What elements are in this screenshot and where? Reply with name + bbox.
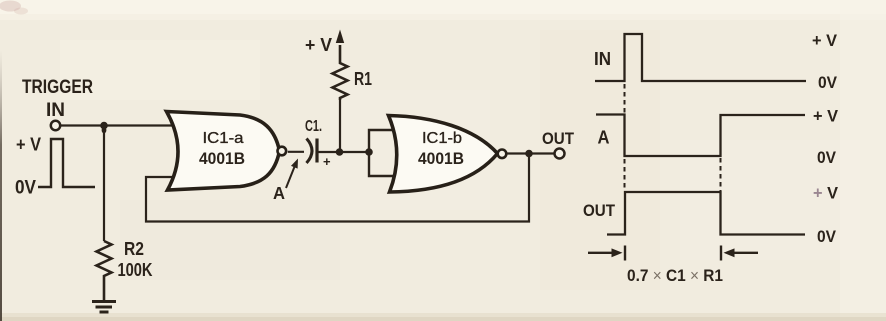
terminal: trigger input — [51, 121, 60, 130]
terminal: OUT — [555, 149, 565, 159]
svg-text:0V: 0V — [817, 227, 837, 246]
junction dot C1/R1 node — [336, 148, 344, 156]
inversion bubble IC1-a — [278, 147, 287, 156]
resistor R1 with supply arrow — [339, 100, 341, 152]
svg-text:R1: R1 — [354, 69, 372, 89]
node A arrow — [286, 163, 296, 188]
top light strip — [0, 0, 886, 14]
wire: bubble to OUT terminal — [507, 152, 554, 154]
wire: node down to R2 — [103, 126, 105, 242]
svg-text:+ V: + V — [16, 135, 41, 155]
svg-text:100K: 100K — [118, 260, 153, 280]
bottom shadow band — [0, 313, 886, 321]
junction dot at IC1-b input bracket — [365, 148, 373, 156]
svg-text:0V: 0V — [817, 148, 837, 167]
svg-text:OUT: OUT — [583, 201, 616, 220]
ground — [92, 302, 116, 313]
waveform A trace — [596, 115, 805, 157]
wire: bubble to C1 — [288, 151, 304, 153]
svg-text:+ V: + V — [305, 35, 332, 55]
junction dot OUT node — [525, 150, 533, 158]
svg-text:IC1-b: IC1-b — [422, 130, 462, 147]
svg-text:0.7 × C1 × R1: 0.7 × C1 × R1 — [627, 266, 723, 285]
arrow left (duration) — [588, 252, 613, 254]
svg-text:A: A — [598, 128, 610, 148]
input pulse waveform symbol — [38, 139, 95, 187]
mottle patches — [60, 40, 260, 100]
NOR gate IC1-b — [389, 116, 498, 193]
wire: input bracket IC1-b — [369, 130, 397, 176]
pink smudge top-left — [0, 1, 21, 12]
node junction dot at trigger line — [100, 122, 108, 130]
svg-text:+: + — [323, 154, 331, 169]
wire: feedback from OUT node to IC1-a lower input — [146, 154, 529, 222]
svg-text:0V: 0V — [15, 178, 36, 199]
dashed line t2 — [720, 158, 722, 191]
svg-text:R2: R2 — [124, 239, 144, 259]
resistor R2 — [97, 241, 112, 301]
svg-text:A: A — [273, 183, 285, 203]
wire: C1 to node — [319, 151, 370, 153]
svg-text:+ V: + V — [812, 31, 838, 50]
svg-text:0V: 0V — [818, 73, 838, 92]
waveform IN trace — [595, 34, 806, 81]
dashed line t1 upper — [624, 84, 626, 113]
svg-text:4001B: 4001B — [199, 149, 245, 168]
svg-text:IN: IN — [46, 100, 65, 121]
dashed line t1 lower — [624, 159, 626, 190]
svg-text:IN: IN — [594, 49, 611, 69]
svg-text:TRIGGER: TRIGGER — [22, 77, 93, 98]
svg-text:4001B: 4001B — [418, 149, 464, 168]
arrow right (duration) — [733, 252, 758, 254]
capacitor C1 — [307, 139, 313, 164]
svg-text:+ V: + V — [813, 107, 839, 126]
left edge dark line — [0, 50, 2, 321]
NOR gate IC1-a — [167, 112, 280, 191]
svg-text:C1.: C1. — [305, 118, 322, 135]
svg-text:+ V: + V — [813, 184, 839, 203]
tick t2 — [720, 246, 722, 261]
svg-text:OUT: OUT — [542, 129, 575, 148]
tick t1 — [624, 246, 626, 261]
inversion bubble IC1-b — [498, 150, 507, 159]
waveform OUT trace — [607, 192, 805, 235]
svg-text:IC1-a: IC1-a — [203, 130, 244, 147]
wire: trigger input to gate IC1-a top input — [61, 124, 175, 126]
